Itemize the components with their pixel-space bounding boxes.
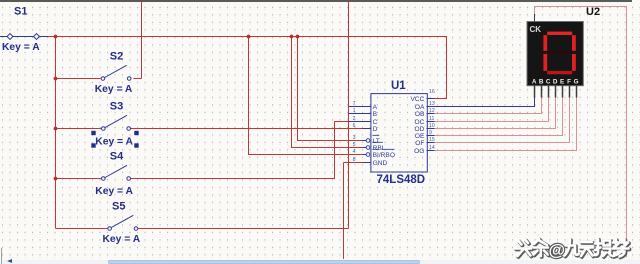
svg-text:Key = A: Key = A xyxy=(103,234,141,245)
svg-text:S5: S5 xyxy=(112,201,125,213)
svg-text:S4: S4 xyxy=(110,151,124,163)
svg-text:A: A xyxy=(373,104,378,111)
svg-text:OB: OB xyxy=(415,111,425,118)
svg-text:A: A xyxy=(532,79,537,86)
svg-text:GND: GND xyxy=(373,160,388,167)
svg-text:U2: U2 xyxy=(586,6,600,18)
svg-text:1: 1 xyxy=(353,108,356,114)
svg-text:6: 6 xyxy=(353,123,356,129)
svg-text:9: 9 xyxy=(429,130,432,136)
svg-text:F: F xyxy=(567,79,571,86)
svg-text:15: 15 xyxy=(429,137,435,143)
svg-text:13: 13 xyxy=(429,101,435,107)
svg-text:U1: U1 xyxy=(391,80,406,92)
svg-text:OG: OG xyxy=(414,148,424,155)
svg-text:2: 2 xyxy=(353,116,356,122)
svg-text:B: B xyxy=(373,111,378,118)
svg-text:S3: S3 xyxy=(110,101,123,113)
svg-text:LT: LT xyxy=(373,138,380,145)
svg-text:S2: S2 xyxy=(110,51,123,63)
svg-text:11: 11 xyxy=(429,116,434,122)
svg-text:OE: OE xyxy=(415,133,425,140)
svg-text:CK: CK xyxy=(530,25,542,34)
svg-text:3: 3 xyxy=(353,135,356,141)
svg-text:E: E xyxy=(560,79,564,86)
svg-text:@: @ xyxy=(549,241,566,260)
svg-text:Key = A: Key = A xyxy=(2,42,40,53)
svg-text:BI/RBO: BI/RBO xyxy=(373,152,395,159)
svg-text:OC: OC xyxy=(415,119,425,126)
svg-text:16: 16 xyxy=(429,89,435,95)
svg-text:4: 4 xyxy=(353,149,356,155)
svg-text:D: D xyxy=(553,79,558,86)
svg-text:C: C xyxy=(546,79,551,86)
svg-text:14: 14 xyxy=(429,145,435,151)
svg-text:7: 7 xyxy=(353,101,356,107)
svg-text:OA: OA xyxy=(415,104,425,111)
svg-text:10: 10 xyxy=(429,123,435,129)
svg-text:Key = A: Key = A xyxy=(95,137,133,148)
svg-text:OF: OF xyxy=(415,140,424,147)
svg-text:B: B xyxy=(539,79,544,86)
svg-text:Key = A: Key = A xyxy=(95,84,133,95)
svg-text:C: C xyxy=(373,119,378,126)
svg-text:5: 5 xyxy=(353,142,356,148)
svg-text:12: 12 xyxy=(429,108,435,114)
svg-text:8: 8 xyxy=(353,157,356,163)
svg-text:D: D xyxy=(373,126,378,133)
svg-text:VCC: VCC xyxy=(410,96,424,103)
svg-text:74LS48D: 74LS48D xyxy=(377,174,426,186)
svg-text:Key = A: Key = A xyxy=(95,186,133,197)
svg-text:S1: S1 xyxy=(14,6,27,18)
svg-text:RBI: RBI xyxy=(373,145,384,152)
svg-text:OD: OD xyxy=(415,126,425,133)
svg-text:G: G xyxy=(574,79,579,86)
